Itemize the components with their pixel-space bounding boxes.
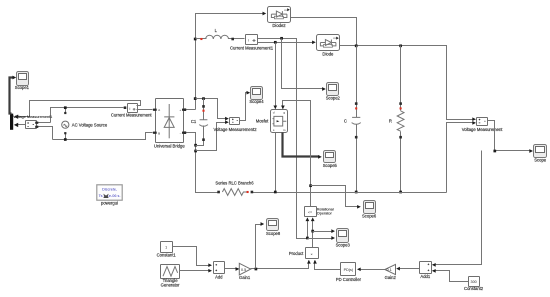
wire AC bottom rail to bridge B	[53, 133, 153, 140]
wire inductor L line	[196, 38, 207, 40]
node junction on dc+ rail at inductor branch	[194, 38, 197, 41]
svg-text:Voltage Measurement: Voltage Measurement	[462, 127, 504, 132]
svg-text:Diode: Diode	[322, 52, 334, 57]
svg-text:m: m	[333, 36, 336, 40]
wire bridge - output down left vertical	[185, 133, 218, 193]
svg-text:Product: Product	[289, 251, 304, 256]
wire branch to Scope6	[311, 186, 360, 207]
Current Measurement block	[128, 104, 138, 113]
wire Diode output rail to right	[340, 46, 475, 120]
scope Scope3	[337, 229, 349, 243]
node junction VM output feedback	[493, 150, 496, 153]
svg-text:Scope8: Scope8	[266, 231, 281, 236]
wire C1 top branch and VM2 plus input	[196, 99, 228, 119]
svg-text:m: m	[283, 128, 286, 132]
wire VM2 minus input	[196, 123, 228, 151]
Diode2 block	[268, 7, 291, 23]
svg-text:C1: C1	[191, 119, 197, 124]
svg-text:0.1: 0.1	[387, 268, 392, 272]
svg-text:L: L	[215, 28, 218, 33]
wire Voltage Measurement minus input from right rail	[447, 123, 475, 193]
wire Constant1 to Add input 1	[173, 247, 211, 266]
scope Scope5	[324, 151, 336, 163]
wire product output to relational operator input 2	[312, 219, 314, 248]
svg-text:300: 300	[471, 280, 477, 284]
Triangle Generator block	[161, 265, 180, 279]
Voltage Measurement1 block	[26, 121, 37, 129]
svg-text:Voltage Measurement1: Voltage Measurement1	[13, 115, 52, 119]
node junction on dc+ rail at C1/VM2 branch	[194, 97, 197, 100]
scope Scope2	[327, 83, 339, 96]
scope Scope4	[251, 87, 263, 100]
wire current signal branch to Scope3 input 2	[308, 238, 334, 240]
wire C branch vertical	[356, 46, 358, 118]
svg-text:PD Controller: PD Controller	[336, 277, 362, 282]
svg-text:Scope: Scope	[534, 158, 547, 163]
gain Gain2 (points left)	[385, 264, 396, 274]
svg-text:Scope2: Scope2	[326, 96, 341, 101]
svg-text:Series RLC Branch6: Series RLC Branch6	[215, 180, 254, 185]
AC Voltage Source	[62, 121, 69, 128]
powergui block	[97, 185, 122, 200]
wire top rail from bridge + up to Diode2 input	[196, 14, 265, 110]
mosfet Mosfet block	[271, 110, 288, 133]
svg-text:Scope5: Scope5	[323, 163, 338, 168]
wire branch to Scope2	[282, 39, 325, 89]
scope Scope1	[17, 72, 29, 86]
svg-text:1: 1	[165, 246, 167, 250]
product block	[306, 248, 319, 259]
svg-text:Voltage Measurement2: Voltage Measurement2	[213, 127, 257, 132]
svg-text:–: –	[180, 131, 182, 135]
svg-text:Scope3: Scope3	[336, 242, 351, 247]
wire CM1 physical output to Diode	[258, 42, 315, 44]
svg-text:0.5: 0.5	[241, 268, 246, 272]
gain Gain1	[239, 263, 250, 275]
Series RLC Branch6 resistor	[253, 192, 447, 194]
Add1 block	[420, 262, 432, 274]
svg-text:g: g	[283, 111, 285, 115]
node junction CM1 i to scope2 branch	[280, 37, 283, 40]
wire mux output to Scope1 (bold)	[10, 78, 14, 114]
wire CM output to bridge A	[137, 109, 153, 111]
wire mosfet m signal to Scope5 (bold)	[283, 133, 320, 157]
svg-text:Discrete,: Discrete,	[102, 188, 117, 192]
node junction to mosfet drain	[274, 41, 277, 44]
wire VM2 output to Scope4	[240, 93, 249, 121]
node junction current signal to Scope3	[306, 237, 309, 240]
svg-text:Constant2: Constant2	[464, 286, 484, 291]
svg-text:Universal Bridge: Universal Bridge	[154, 144, 185, 149]
Current Measurement1 block	[246, 35, 258, 45]
svg-text:Scope1: Scope1	[15, 85, 30, 90]
wire VM1 bottom-right to bottom rail	[37, 127, 53, 140]
wire gain2 output to PD controller input	[359, 269, 385, 271]
Universal Bridge block	[156, 99, 184, 143]
svg-text:Current Measurement: Current Measurement	[111, 113, 153, 118]
svg-text:Mosfet: Mosfet	[256, 119, 269, 124]
svg-text:Current Measurement1: Current Measurement1	[230, 45, 274, 50]
svg-text:Operator: Operator	[317, 211, 333, 215]
svg-text:Add1: Add1	[420, 274, 430, 279]
svg-text:Constant1: Constant1	[157, 253, 177, 258]
svg-text:×: ×	[311, 253, 313, 257]
Voltage Measurement block (output)	[477, 118, 488, 126]
node junction gate signal to Scope6	[309, 184, 312, 187]
svg-text:R: R	[389, 118, 392, 123]
Voltage Measurement2 block	[230, 118, 240, 125]
node junction VM2 minus connection	[194, 150, 197, 153]
node junction R bottom on ground rail	[399, 191, 402, 194]
svg-text:+: +	[179, 108, 181, 112]
node junction C1 bottom connection	[194, 144, 197, 147]
wire CM i signal to mux input 1	[16, 101, 141, 117]
Constant2 block	[469, 277, 480, 287]
svg-text:C: C	[344, 118, 347, 123]
scope Scope6	[364, 201, 376, 214]
wire R branch vertical	[400, 46, 402, 111]
svg-text:AC Voltage Source: AC Voltage Source	[72, 122, 108, 127]
node junction at C branch top	[355, 44, 358, 47]
svg-text:Gain1: Gain1	[239, 275, 251, 280]
wire gain1 output to product input 1	[251, 261, 309, 269]
resistor R zigzag	[397, 111, 404, 131]
svg-text:Gain2: Gain2	[385, 275, 397, 280]
wire voltage feedback to Add1 input 1	[433, 151, 482, 265]
wire Constant2 to Add1 input 2	[433, 271, 469, 282]
wire VM1 top-right to rail	[37, 122, 51, 124]
wire relational operator output to mosfet gate	[283, 101, 311, 207]
wire mosfet source to ground rail	[275, 133, 277, 193]
PD Controller block	[341, 263, 356, 276]
wire VM1 v output to mux input 2	[16, 124, 26, 126]
inductor L coil	[206, 35, 229, 39]
svg-text:<=: <=	[308, 211, 312, 215]
wire branch to Scope3 input 1	[313, 231, 334, 233]
svg-text:powergui: powergui	[101, 200, 118, 205]
wire bridge + output to rail	[185, 109, 196, 111]
svg-text:Add: Add	[215, 275, 223, 280]
svg-text:m: m	[284, 8, 287, 12]
svg-text:PD(s): PD(s)	[344, 268, 353, 272]
wire VM output to Scope with feedback branch	[488, 121, 532, 151]
wire Diode2 output down to dc node	[291, 18, 357, 46]
svg-text:Ts = 1e-06 s.: Ts = 1e-06 s.	[99, 194, 121, 198]
wire Add output to Gain1	[225, 268, 239, 270]
Constant1 block	[161, 242, 173, 253]
wire Triangle Generator to Add input 2	[180, 270, 211, 272]
svg-text:Scope6: Scope6	[362, 214, 377, 219]
wire branch to Scope8	[256, 225, 263, 269]
mux Mux1	[10, 114, 13, 130]
svg-text:Scope4: Scope4	[249, 99, 264, 104]
node junction gain1 output to Scope8	[255, 268, 258, 271]
capacitor C plates	[352, 117, 361, 124]
wire to mosfet drain	[275, 43, 277, 109]
node junction mosfet source at rail	[274, 191, 277, 194]
svg-text:Diode2: Diode2	[272, 23, 286, 28]
node junction C bottom on ground rail	[355, 191, 358, 194]
scope Scope	[534, 145, 547, 158]
svg-text:B: B	[158, 131, 160, 135]
svg-text:Generator: Generator	[161, 282, 180, 287]
wire CM1 i signal to relational operator input	[258, 39, 308, 239]
relational operator block	[305, 207, 317, 217]
capacitor C1 branch	[203, 99, 205, 120]
wire AC top rail to Current Measurement	[51, 108, 124, 123]
node junction product output to Scope3	[311, 230, 314, 233]
Add block	[214, 262, 225, 274]
Diode block	[317, 35, 340, 51]
node junction at C1 top	[202, 97, 205, 100]
wire PD controller output to product input 2	[315, 261, 341, 270]
scope Scope8	[267, 219, 279, 231]
svg-text:d: d	[273, 111, 275, 115]
node junction at R branch top	[399, 44, 402, 47]
wire Add1 output to gain2 input	[398, 268, 420, 270]
